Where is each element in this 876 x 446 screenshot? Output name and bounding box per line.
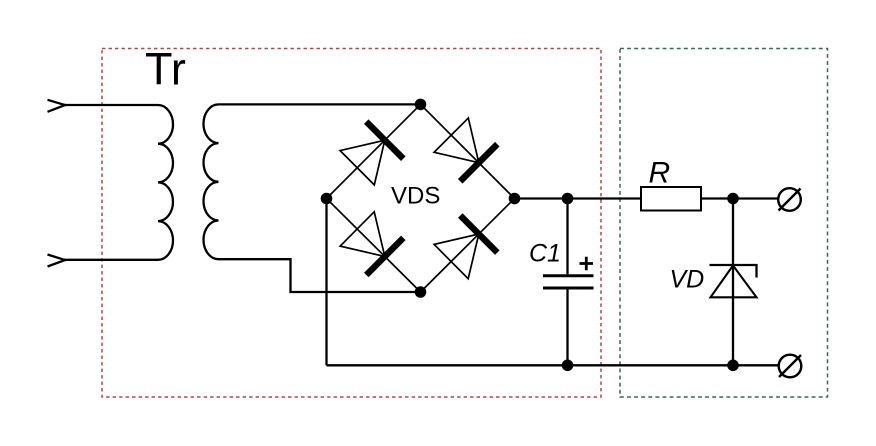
node dot C1 top: [562, 193, 574, 205]
node dot bridge right: [509, 193, 521, 205]
output terminal bottom: [779, 355, 802, 378]
bridge side wires: [327, 104, 515, 292]
svg-text:R: R: [649, 157, 671, 190]
svg-text:VDS: VDS: [391, 183, 440, 210]
stabilizer block dashed box (green): [620, 49, 828, 398]
node dot R-VD junction: [727, 193, 739, 205]
input terminal arrow bottom: [48, 255, 67, 267]
wire left node down to bottom rail: [325, 199, 327, 366]
wire bottom rail: [327, 364, 779, 366]
zener VD vertical wire: [732, 199, 734, 366]
capacitor C1 bottom lead: [566, 290, 568, 366]
node dot bridge left: [321, 193, 333, 205]
capacitor C1 bottom plate: [543, 287, 594, 290]
capacitor C1 top lead: [566, 199, 568, 275]
svg-text:VD: VD: [670, 266, 705, 294]
diode VDS.3 (left-bottom arm): [340, 212, 403, 275]
capacitor C1 top plate: [543, 274, 594, 277]
transformer T1 primary winding: [64, 105, 173, 260]
node dot bridge bottom: [415, 286, 427, 298]
node dot C1 bottom: [562, 360, 574, 372]
rectifier block dashed box (red): [102, 49, 601, 398]
diode VDS.2 (top-right arm): [434, 118, 497, 181]
svg-text:C1: C1: [529, 240, 561, 268]
diode VDS.4 (bottom-right arm): [434, 216, 497, 279]
resistor R body: [641, 187, 701, 211]
output terminal top: [778, 188, 801, 211]
wire top output rail: [515, 197, 779, 199]
input terminal arrow top: [48, 100, 67, 112]
zener VD cathode bar with bent end: [710, 265, 757, 278]
capacitor C1 plus sign: [580, 257, 594, 270]
transformer T1 secondary winding: [204, 104, 421, 292]
diode VDS.1 (left-top arm): [340, 122, 403, 185]
node dot bridge top: [415, 99, 427, 111]
zener VD triangle: [711, 266, 757, 298]
node dot VD bottom: [727, 360, 739, 372]
svg-text:Tr: Tr: [145, 44, 186, 95]
